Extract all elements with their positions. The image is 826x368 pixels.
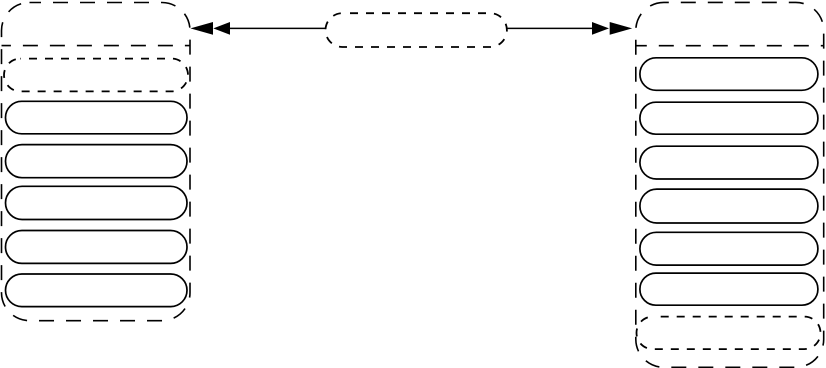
right layer pill 4 <box>640 189 818 223</box>
right stack container (dashed rounded box) <box>636 2 824 367</box>
left arrow head inner triangle <box>213 22 230 35</box>
right layer pill 6 <box>640 273 818 305</box>
left arrow shaft <box>230 27 326 29</box>
left arrow head outer triangle <box>190 22 213 35</box>
left layer pill 4 <box>6 231 188 264</box>
right layer pill 3 <box>640 146 818 179</box>
right arrow shaft <box>507 27 592 29</box>
left container separator line <box>2 45 191 47</box>
right arrow head outer triangle <box>610 22 633 35</box>
left layer pill 3 <box>6 186 188 219</box>
left stack container (dashed rounded box) <box>2 3 191 321</box>
right arrow head inner triangle <box>592 22 609 35</box>
right container separator line <box>636 45 824 47</box>
left dashed layer pill <box>4 59 188 92</box>
right dashed layer pill <box>637 317 821 350</box>
left layer pill 2 <box>6 145 188 178</box>
left layer pill 5 <box>6 274 188 307</box>
right layer pill 1 <box>640 58 818 91</box>
right layer pill 2 <box>640 102 818 134</box>
right layer pill 5 <box>640 232 818 265</box>
left layer pill 1 <box>6 101 188 134</box>
center dashed pill <box>326 13 507 47</box>
